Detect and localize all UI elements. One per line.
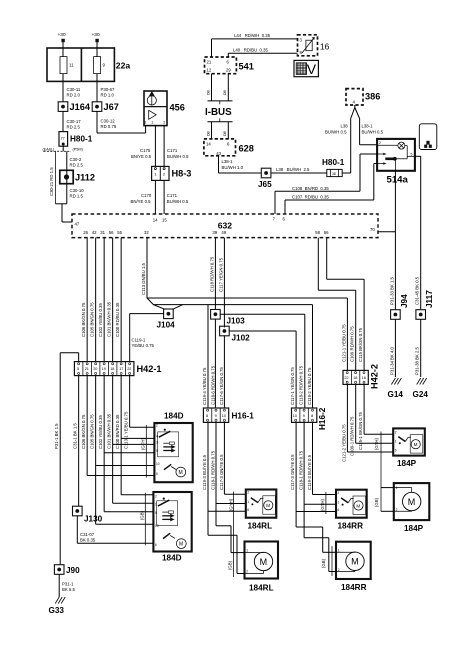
svg-text:C106 BK/GN 0.75: C106 BK/GN 0.75 [81,302,86,337]
svg-text:18: 18 [110,367,114,371]
svg-text:DB: DB [223,89,227,95]
svg-text:66: 66 [324,230,329,235]
svg-text:C101 BK/WH 0.35: C101 BK/WH 0.35 [107,301,112,337]
svg-text:C109 RD/WH 0.75: C109 RD/WH 0.75 [350,326,355,362]
svg-text:C117-1 YE/GN 0.75: C117-1 YE/GN 0.75 [290,367,295,405]
svg-text:32: 32 [144,230,149,235]
svg-text:77: 77 [61,137,65,141]
svg-text:J94: J94 [400,294,409,308]
svg-text:2: 2 [155,494,157,498]
svg-text:C171: C171 [167,193,178,198]
svg-text:H80-1: H80-1 [322,158,345,167]
svg-text:G14: G14 [388,390,404,399]
svg-text:1: 1 [395,439,397,443]
svg-text:12: 12 [207,68,212,73]
svg-text:C108 BN/RD 0.35: C108 BN/RD 0.35 [292,186,329,191]
svg-text:C30-21 RD 1.5: C30-21 RD 1.5 [49,167,54,196]
svg-text:C118-6 RD/WH 0.75: C118-6 RD/WH 0.75 [210,365,215,405]
svg-text:+30: +30 [92,32,100,38]
svg-text:(GB): (GB) [374,497,379,507]
svg-text:RD 1.5: RD 1.5 [70,194,84,199]
svg-text:P31-1: P31-1 [62,582,74,587]
svg-text:J112: J112 [75,173,95,183]
svg-text:184RL: 184RL [248,522,273,531]
svg-text:P30-67: P30-67 [101,87,115,92]
svg-text:P31-1 BK 1.5: P31-1 BK 1.5 [54,423,59,449]
svg-text:C102 YE/BU 0.35: C102 YE/BU 0.35 [98,303,103,337]
svg-text:J103: J103 [227,317,246,326]
svg-text:RD 0.75: RD 0.75 [101,124,117,129]
svg-text:BN/YE 0.5: BN/YE 0.5 [131,199,152,204]
svg-text:J130: J130 [84,515,103,524]
svg-text:DB: DB [223,130,227,136]
svg-text:+30: +30 [58,32,66,38]
svg-text:L40 RD/BU 0.35: L40 RD/BU 0.35 [233,47,268,52]
svg-text:C102 YE/BU 0.35: C102 YE/BU 0.35 [98,415,103,449]
svg-text:C30-11: C30-11 [67,87,81,92]
svg-text:17: 17 [119,367,123,371]
svg-text:2: 2 [379,141,381,145]
svg-text:L38-1: L38-1 [222,159,234,164]
svg-text:(GB): (GB) [228,560,233,570]
svg-text:10: 10 [293,414,297,418]
svg-text:6: 6 [247,508,249,512]
svg-text:47: 47 [75,222,80,227]
svg-text:9: 9 [215,414,217,418]
svg-text:C100 RD/BU 0.35: C100 RD/BU 0.35 [115,302,120,337]
svg-text:P31-33 BK 1.5: P31-33 BK 1.5 [389,276,394,305]
svg-text:49: 49 [221,230,226,235]
svg-text:J117: J117 [425,290,434,308]
svg-text:M: M [179,470,183,476]
svg-text:C117-3 GN/YE 0.5: C117-3 GN/YE 0.5 [219,454,224,490]
svg-text:184D: 184D [164,412,184,421]
svg-text:55: 55 [117,230,122,235]
svg-text:C105 BN/GN 0.75: C105 BN/GN 0.75 [90,414,95,449]
svg-text:184P: 184P [397,459,417,468]
svg-text:184RR: 184RR [338,522,364,531]
svg-text:(GTH): (GTH) [141,437,146,450]
svg-text:C119-4 YE/BU 0.75: C119-4 YE/BU 0.75 [202,367,207,405]
svg-text:J102: J102 [232,334,251,343]
svg-text:1: 1 [338,500,340,504]
svg-text:1: 1 [246,549,248,553]
svg-text:22: 22 [127,367,131,371]
svg-text:H42-2: H42-2 [370,364,380,389]
svg-text:(GTH): (GTH) [320,498,325,511]
svg-text:42: 42 [92,230,97,235]
svg-text:6: 6 [156,472,158,476]
svg-text:BU/WH 0.5: BU/WH 0.5 [325,130,347,135]
svg-text:(GB): (GB) [140,510,145,520]
svg-text:RD 2.0: RD 2.0 [67,93,81,98]
svg-text:C119-3 BU/YE 0.5: C119-3 BU/YE 0.5 [307,454,312,490]
svg-text:C175: C175 [140,148,151,153]
svg-text:G33: G33 [49,606,65,615]
svg-text:H16-2: H16-2 [318,407,327,430]
svg-text:M: M [356,503,360,508]
svg-text:C118-1 RD/WH 0.75: C118-1 RD/WH 0.75 [210,450,215,490]
svg-text:C105 BN/GN 0.75: C105 BN/GN 0.75 [90,302,95,337]
svg-text:H42-1: H42-1 [137,364,162,374]
svg-text:I-BUS: I-BUS [205,107,232,118]
svg-text:C117-6 YE/GN 0.75: C117-6 YE/GN 0.75 [219,367,224,405]
svg-text:BN/YE 0.5: BN/YE 0.5 [131,154,152,159]
svg-text:YE/BU 0.75: YE/BU 0.75 [132,343,155,348]
svg-text:43: 43 [216,151,221,156]
svg-text:L44 RD/WH 0.35: L44 RD/WH 0.35 [234,33,271,38]
svg-text:14: 14 [206,142,211,147]
svg-text:6: 6 [395,449,397,453]
svg-text:8: 8 [206,414,208,418]
svg-text:BU/WH 0.5: BU/WH 0.5 [167,199,189,204]
svg-text:(GYH): (GYH) [229,498,234,511]
svg-text:C101 BK/WH 0.35: C101 BK/WH 0.35 [107,413,112,449]
svg-text:J65: J65 [258,180,272,189]
svg-text:C109-1 RD/WH 0.75: C109-1 RD/WH 0.75 [350,416,355,456]
svg-text:26: 26 [83,230,88,235]
svg-text:L38 BU/WH 2.5: L38 BU/WH 2.5 [276,167,310,172]
svg-text:20: 20 [93,367,97,371]
svg-text:C118 RD/WH 0.75: C118 RD/WH 0.75 [209,256,214,292]
svg-text:RD 1.0: RD 1.0 [101,93,115,98]
svg-text:(GB): (GB) [321,558,326,568]
svg-text:C100 BN/RD 0.35: C100 BN/RD 0.35 [115,414,120,449]
svg-text:39: 39 [212,230,217,235]
svg-text:56: 56 [109,230,114,235]
svg-text:C30-10: C30-10 [70,188,85,193]
svg-text:22a: 22a [116,60,131,70]
svg-text:M: M [266,503,270,508]
svg-text:16: 16 [362,376,366,380]
svg-text:RD 2.5: RD 2.5 [70,163,84,168]
svg-text:DB: DB [206,89,210,95]
svg-text:1: 1 [151,121,153,125]
svg-text:10: 10 [222,414,226,418]
svg-text:H16-1: H16-1 [232,412,255,421]
svg-text:541: 541 [239,62,254,72]
svg-text:(EA6L): (EA6L) [43,147,56,151]
svg-text:C119-1: C119-1 [132,338,146,343]
svg-text:184P: 184P [404,524,424,533]
svg-text:L38-1: L38-1 [362,124,374,129]
svg-text:C115-1 BK/GN 0.75: C115-1 BK/GN 0.75 [358,411,363,450]
svg-text:G24: G24 [413,390,429,399]
svg-text:2: 2 [395,431,397,435]
svg-text:C106 BK/GN 0.75: C106 BK/GN 0.75 [81,414,86,449]
svg-text:6: 6 [155,543,157,547]
svg-text:8: 8 [311,414,313,418]
svg-text:386: 386 [365,92,380,102]
svg-text:L38: L38 [341,124,349,129]
svg-text:14: 14 [153,218,158,223]
svg-text:184RR: 184RR [341,583,367,592]
svg-text:C121-2 YE/BU 0.75: C121-2 YE/BU 0.75 [341,424,346,462]
svg-text:C30-2: C30-2 [70,157,82,162]
svg-text:16: 16 [320,42,330,52]
svg-text:19: 19 [102,367,106,371]
svg-text:15: 15 [162,218,167,223]
svg-text:31: 31 [100,230,105,235]
svg-text:M: M [351,557,359,567]
svg-text:M: M [408,497,416,507]
svg-text:C117 YE/GN 0.75: C117 YE/GN 0.75 [218,257,223,292]
svg-text:P31-38 BK 2.5: P31-38 BK 2.5 [415,346,420,375]
svg-text:6: 6 [338,508,340,512]
svg-text:3: 3 [144,121,146,125]
svg-text:BU/WH 1.0: BU/WH 1.0 [222,165,244,170]
svg-text:J104: J104 [157,321,176,330]
svg-text:BK 6.5: BK 6.5 [62,587,76,592]
svg-text:J164: J164 [70,102,91,112]
svg-text:2: 2 [163,121,165,125]
svg-text:C119-3 BU/YE 0.5: C119-3 BU/YE 0.5 [202,454,207,490]
svg-text:10: 10 [156,462,160,466]
svg-text:11: 11 [69,63,74,68]
svg-text:2: 2 [247,491,249,495]
svg-text:184RL: 184RL [249,584,274,593]
svg-text:29: 29 [226,68,231,73]
svg-text:456: 456 [170,103,185,113]
svg-text:BK 0.35: BK 0.35 [80,538,96,543]
svg-text:58: 58 [315,230,320,235]
svg-text:BU/WH 0.5: BU/WH 0.5 [167,154,189,159]
svg-text:18: 18 [353,376,357,380]
svg-text:184D: 184D [162,554,182,563]
svg-text:38: 38 [332,172,336,176]
svg-text:(P5M): (P5M) [73,147,84,151]
svg-text:628: 628 [239,144,254,154]
svg-text:P31-34 BK 4.0: P31-34 BK 4.0 [389,346,394,375]
svg-text:1: 1 [396,486,398,490]
svg-text:5: 5 [411,152,413,156]
svg-text:9: 9 [303,414,305,418]
svg-text:C31-07: C31-07 [80,532,95,537]
svg-text:2: 2 [246,570,248,574]
svg-text:632: 632 [218,221,233,231]
svg-text:2: 2 [156,424,158,428]
svg-text:M: M [414,442,418,447]
svg-text:BU/WH 0.5: BU/WH 0.5 [362,130,384,135]
svg-text:M: M [260,557,268,567]
svg-text:C118-1 RD/WH 0.75: C118-1 RD/WH 0.75 [299,450,304,490]
svg-text:C119-2 YE/BU 0.75: C119-2 YE/BU 0.75 [307,367,312,405]
svg-text:RD 2.5: RD 2.5 [67,125,81,130]
svg-text:5: 5 [77,367,79,371]
svg-text:H80-1: H80-1 [70,135,93,144]
svg-text:DB: DB [206,130,210,136]
svg-text:C31-45 BK 0.5: C31-45 BK 0.5 [415,276,420,305]
svg-text:C171: C171 [167,148,178,153]
svg-text:70: 70 [370,227,375,232]
svg-text:M: M [179,542,183,548]
svg-text:J90: J90 [66,566,80,575]
svg-text:V: V [307,61,317,77]
svg-text:2: 2 [338,491,340,495]
svg-text:C170: C170 [141,193,152,198]
svg-text:C117-3 GN/YE 0.5: C117-3 GN/YE 0.5 [290,454,295,490]
svg-text:C30-17: C30-17 [67,119,82,124]
svg-text:J67: J67 [104,102,119,112]
svg-text:H8-3: H8-3 [172,169,192,179]
svg-text:C113-1 YE/BU 0.75: C113-1 YE/BU 0.75 [124,411,129,449]
svg-text:C115 BK/GN 0.75: C115 BK/GN 0.75 [358,327,363,362]
svg-text:C30-12: C30-12 [101,119,116,124]
svg-text:(GTH): (GTH) [374,437,379,450]
svg-text:1: 1 [247,500,249,504]
svg-text:C107 RD/BU 0.35: C107 RD/BU 0.35 [292,195,329,200]
svg-text:C31-1 BK 1.5: C31-1 BK 1.5 [73,423,78,449]
svg-text:22: 22 [344,376,348,380]
svg-text:C113 GN/BU 1.5: C113 GN/BU 1.5 [141,262,146,295]
svg-text:C121-1 YE/BU 0.75: C121-1 YE/BU 0.75 [341,324,346,362]
svg-text:514a: 514a [387,175,409,186]
svg-text:C118-2 RD/WH 0.75: C118-2 RD/WH 0.75 [299,365,304,405]
svg-text:21: 21 [85,367,89,371]
svg-text:21: 21 [207,60,212,65]
